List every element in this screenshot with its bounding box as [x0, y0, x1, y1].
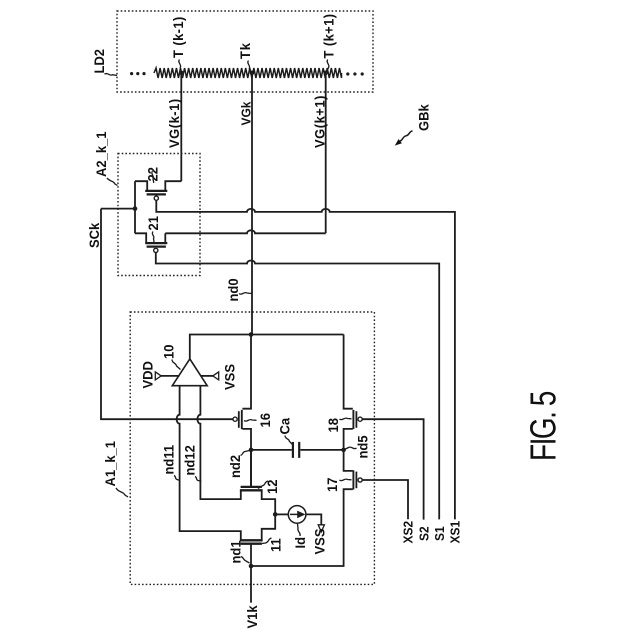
- transistor Q18 channel bar: [352, 410, 354, 429]
- leader squiggle nd2: [241, 451, 250, 456]
- dashed box A1_k_1 (amplifier block): [130, 312, 374, 584]
- leader squiggle 11: [262, 538, 272, 544]
- leader squiggle A2_k_1: [107, 178, 118, 186]
- svg-text:VSS: VSS: [222, 364, 238, 390]
- svg-text:GBk: GBk: [416, 104, 432, 131]
- ellipsis dots right of heater: [346, 72, 349, 75]
- svg-text:VGk: VGk: [239, 101, 254, 125]
- leader squiggle 18: [340, 418, 352, 420]
- wire SCk feedback down left side to gate of Q16: [101, 209, 233, 420]
- leader squiggle LD2: [105, 73, 118, 75]
- leader squiggle 12: [258, 481, 268, 489]
- transistor Q22 drain wire top-right: [165, 181, 181, 190]
- transistor Q17 channel bar: [352, 470, 354, 489]
- node tap T(k+1): [323, 71, 328, 76]
- wire Q16 lower terminal to nd2: [242, 429, 251, 487]
- node tap Tk: [250, 71, 255, 76]
- svg-text:VG(k-1): VG(k-1): [167, 98, 183, 148]
- leader squiggle nd12: [195, 477, 201, 482]
- node nd1 junction: [249, 564, 254, 569]
- svg-text:XS2: XS2: [401, 521, 416, 544]
- transistor Q16 gate bar: [238, 411, 240, 428]
- wire VG(k+1) from tap T(k+1) down to transistor 21 drain wire: [325, 73, 327, 233]
- leader squiggle Tk: [248, 61, 251, 73]
- wire VGk / nd0 from tap Tk down to op-amp output node: [251, 73, 253, 335]
- node junction Id current source: [273, 512, 278, 517]
- leader squiggle nd1: [241, 557, 250, 564]
- transistor Q18 gate bar: [355, 411, 357, 428]
- wire Q17 gate to XS2: [362, 480, 408, 519]
- transistor Q12 channel bar: [240, 489, 263, 491]
- leader squiggle nd11: [174, 476, 179, 481]
- svg-text:VDD: VDD: [140, 361, 156, 389]
- wire op-amp output up and right to nd0 node: [190, 335, 344, 360]
- leader arrow GBk: [400, 131, 413, 142]
- power symbol VSS triangle (op-amp): [213, 372, 219, 380]
- wire Q17 lower terminal down to nd1 rail: [251, 489, 353, 566]
- transistor Q16 channel bar: [241, 410, 243, 429]
- wire Q21 drain to VG(k+1) with crossover hop: [165, 230, 325, 233]
- wire V1k input: [250, 566, 252, 603]
- transistor Q12 gate bar: [241, 486, 262, 488]
- current source Id arrow: [290, 513, 300, 515]
- svg-text:XS1: XS1: [448, 521, 463, 544]
- wire Q22 gate to XS1 with crossover hops: [156, 200, 455, 519]
- leader squiggle 16: [244, 420, 257, 422]
- svg-text:nd0: nd0: [226, 278, 242, 301]
- dashed box LD2 (heater line block): [117, 11, 373, 92]
- svg-text:nd2: nd2: [228, 455, 244, 478]
- transistor Q21 gate bar: [147, 245, 166, 247]
- transistor Q11 channel bar: [240, 539, 263, 541]
- current source Id circle: [288, 506, 306, 524]
- svg-text:SCk: SCk: [87, 222, 103, 248]
- ellipsis dots left of heater: [130, 72, 133, 75]
- wire Q12 gate up to nd2 line: [250, 450, 252, 487]
- wire VDD stub: [161, 375, 180, 377]
- transistor Q21 gate bubble: [154, 248, 158, 252]
- leader squiggle 22: [152, 171, 154, 183]
- svg-text:17: 17: [325, 478, 341, 492]
- node tap T(k-1): [179, 71, 184, 76]
- wire VSS stub: [201, 375, 214, 377]
- leader squiggle Ca: [285, 436, 293, 445]
- svg-text:nd11: nd11: [161, 444, 177, 474]
- svg-text:nd1: nd1: [228, 540, 244, 564]
- leader squiggle Id: [298, 524, 301, 536]
- transistor Q22 source wire top-left: [135, 181, 147, 190]
- svg-text:S1: S1: [433, 526, 448, 541]
- transistor Q21 source wire top-left: [135, 233, 146, 242]
- svg-text:11: 11: [268, 538, 284, 552]
- leader squiggle 10: [172, 360, 181, 370]
- node junction SCk on source line: [133, 206, 138, 211]
- wire Q21 gate to S1 with crossover hop: [156, 253, 439, 520]
- svg-text:10: 10: [161, 345, 177, 359]
- leader squiggle A1_k_1: [116, 488, 128, 497]
- transistor Q22 channel bar: [145, 190, 167, 192]
- arrowhead GBk: [395, 139, 402, 146]
- wire nd2 to capacitor Ca: [251, 449, 292, 451]
- leader squiggle 17: [340, 479, 352, 481]
- transistor Q18 gate bubble: [358, 417, 362, 421]
- wire source tie line between Q22 and Q21: [134, 181, 136, 233]
- wire current source left: [275, 513, 288, 515]
- wire SCk input: [101, 208, 135, 210]
- wire nd12 op-amp input to Q12 with crossover hop: [197, 386, 240, 499]
- transistor Q11 gate bar: [241, 543, 262, 545]
- transistor Q22 gate bubble: [154, 196, 158, 200]
- transistor Q22 gate bar: [147, 193, 166, 195]
- svg-text:T (k-1): T (k-1): [171, 16, 187, 58]
- op-amp U10 triangle: [172, 359, 207, 386]
- svg-text:21: 21: [146, 216, 162, 231]
- power symbol VSS triangle (current source): [318, 525, 324, 532]
- svg-text:S2: S2: [417, 526, 432, 541]
- svg-text:VG(k+1): VG(k+1): [312, 95, 328, 148]
- wire to transistor 18 upper terminal: [344, 335, 353, 409]
- wire Q11 gate down to nd1: [250, 544, 252, 566]
- transistor Q21 drain terminal: [164, 233, 166, 242]
- wire current source right to VSS: [306, 514, 321, 524]
- leader squiggle nd0: [239, 293, 252, 295]
- wire VG(k-1) from tap T(k-1) down to transistor 22: [180, 73, 182, 181]
- wire Q18 gate to S2: [362, 419, 423, 519]
- capacitor Ca left plate: [292, 442, 294, 458]
- wire capacitor Ca to nd5: [300, 449, 343, 451]
- svg-text:A2_k_1: A2_k_1: [94, 131, 110, 177]
- svg-text:Ca: Ca: [277, 417, 293, 434]
- svg-text:nd5: nd5: [355, 435, 371, 459]
- svg-text:Id: Id: [293, 537, 309, 549]
- resistor heater element LD2 zigzag: [154, 68, 342, 78]
- node nd0 junction op-amp output: [249, 332, 254, 337]
- node nd2 junction: [249, 448, 254, 453]
- wire nd0 down to transistor 16: [242, 335, 251, 409]
- svg-text:FIG. 5: FIG. 5: [523, 392, 563, 461]
- dashed box A2_k_1 (switch pair block): [118, 154, 200, 276]
- wire nd11 op-amp input to Q11 with crossover hop: [177, 386, 241, 541]
- svg-text:A1_k_1: A1_k_1: [103, 441, 119, 487]
- svg-text:LD2: LD2: [92, 49, 108, 74]
- svg-text:VSS: VSS: [312, 529, 328, 555]
- wire nd5 to transistor 17 upper terminal: [344, 450, 353, 471]
- svg-text:V1k: V1k: [245, 605, 261, 629]
- svg-text:Tk: Tk: [238, 42, 254, 59]
- leader squiggle 21: [152, 232, 154, 243]
- transistor Q21 channel bar: [145, 242, 167, 244]
- wire Q18 lower terminal to nd5: [344, 429, 353, 450]
- wire Q12 right terminal to current source node: [262, 491, 276, 540]
- power symbol VDD triangle: [155, 372, 161, 380]
- leader squiggle nd5: [345, 447, 357, 449]
- transistor Q16 gate bubble: [233, 417, 237, 421]
- node nd5 junction: [341, 448, 346, 453]
- transistor Q17 gate bubble: [358, 478, 362, 482]
- leader squiggle T(k-1): [179, 60, 181, 72]
- transistor Q17 gate bar: [355, 472, 357, 489]
- capacitor Ca right plate: [298, 442, 300, 458]
- svg-text:T (k+1): T (k+1): [321, 13, 337, 58]
- svg-text:16: 16: [258, 413, 274, 428]
- svg-text:18: 18: [326, 418, 342, 433]
- svg-text:nd12: nd12: [182, 445, 198, 475]
- leader squiggle T(k+1): [326, 60, 329, 72]
